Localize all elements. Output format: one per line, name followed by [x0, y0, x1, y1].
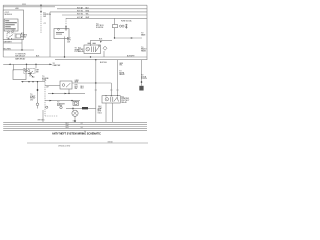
svg-text:HOT AT: HOT AT — [77, 6, 83, 9]
vertical V22 — [21, 39, 23, 51]
bus wire B3 — [50, 11, 147, 13]
svg-text:WHT: WHT — [86, 17, 90, 19]
svg-text:ANTI-THEFT SYSTEM WIRING SCHEM: ANTI-THEFT SYSTEM WIRING SCHEMATIC — [52, 132, 101, 135]
arrow on V66 — [65, 26, 67, 28]
PCM dashed left edge — [44, 80, 46, 116]
small box next to relay — [16, 34, 21, 38]
svg-text:HOT IN: HOT IN — [77, 10, 83, 12]
vertical V90 relay feed — [90, 40, 92, 46]
arrow on W64 left — [9, 64, 11, 66]
relay box (dashed) — [7, 33, 15, 39]
fuse symbols right top — [119, 25, 121, 27]
svg-text:A16: A16 — [16, 7, 19, 10]
connector circle on V37 — [36, 103, 39, 106]
key box interior — [62, 84, 65, 87]
connector circle on PCM edge — [46, 106, 48, 108]
battery glyph — [125, 24, 127, 29]
ground arrow under lamp — [74, 121, 76, 123]
vertical V57-64 link — [64, 37, 66, 47]
dark box end of V142 — [139, 86, 143, 91]
svg-text:HOT IN: HOT IN — [77, 14, 83, 16]
vertical V36 drop — [35, 64, 37, 68]
dot on W57 junction — [64, 56, 65, 57]
svg-text:HARN: HARN — [141, 49, 147, 52]
svg-text:CTRL: CTRL — [42, 80, 46, 82]
dot on W93 — [68, 93, 69, 94]
vertical V43 to bus — [42, 110, 44, 122]
wire W43 — [3, 42, 22, 44]
wire W108 — [66, 107, 96, 109]
pin dots under relay box — [8, 38, 9, 39]
svg-text:G4: G4 — [81, 127, 83, 129]
bottom bus 3 — [3, 126, 147, 128]
dot on W59 junction — [95, 59, 96, 60]
dots on W83 — [95, 82, 96, 83]
svg-text:FUSE 32 15A: FUSE 32 15A — [121, 19, 132, 22]
svg-text:RELAY: RELAY — [119, 73, 125, 76]
svg-text:GRN/WHT: GRN/WHT — [4, 41, 12, 43]
diamond L — [103, 46, 107, 50]
vertical V114 fuse down — [114, 28, 116, 38]
svg-text:CKT: CKT — [30, 99, 33, 101]
relay J contacts — [92, 47, 99, 53]
dots on W81 — [28, 81, 29, 82]
wire W81 — [21, 81, 45, 83]
wire W50 — [3, 49, 34, 51]
svg-text:RELAY: RELAY — [57, 104, 63, 107]
wire W93 — [48, 92, 85, 94]
pins on relay R top — [105, 95, 106, 96]
box E ignition key switch — [60, 81, 72, 89]
wire W38 — [114, 37, 142, 39]
wire W64 — [3, 63, 52, 65]
bus wire B5 — [66, 17, 147, 19]
dots on W50 — [21, 49, 22, 50]
vertical V66 drop to security unit — [65, 18, 67, 28]
labels above relay J — [88, 42, 91, 45]
svg-text:1H234: 1H234 — [108, 141, 113, 143]
svg-text:STARTER: STARTER — [53, 64, 62, 67]
svg-text:WHT/BLK: WHT/BLK — [38, 120, 46, 122]
component boxes — [3, 10, 120, 105]
top border wire — [3, 4, 147, 6]
arrow on W81 — [22, 81, 24, 83]
svg-text:54: 54 — [84, 131, 86, 133]
vertical V37 below connector — [37, 106, 39, 109]
svg-text:WHT: WHT — [75, 82, 79, 84]
dot on W108 — [72, 108, 73, 109]
svg-text:SW: SW — [36, 71, 39, 73]
vertical V96 — [95, 60, 97, 123]
circuit schematic page — [0, 0, 150, 150]
module box A inner lines — [5, 20, 17, 29]
wire W83 out of key box — [72, 82, 111, 84]
vertical V41 dashed — [40, 5, 42, 33]
vertical V106 below relay — [105, 103, 107, 122]
vertical V69 below key box — [68, 89, 70, 93]
lamp circle — [72, 110, 78, 116]
fuse box small — [113, 25, 118, 28]
svg-text:YEL: YEL — [119, 65, 122, 67]
relay R contact — [111, 97, 119, 102]
vertical V117 — [117, 60, 119, 96]
relay R coil — [105, 98, 108, 101]
svg-text:G2: G2 — [73, 121, 75, 123]
vertical V104 diamond drop — [103, 51, 105, 57]
svg-text:LOCKS: LOCKS — [141, 78, 148, 80]
svg-text:C111: C111 — [22, 4, 26, 6]
vertical V112 below relay — [112, 103, 114, 122]
vertical V114 fuse feed — [114, 18, 116, 24]
svg-text:BLK/WHT: BLK/WHT — [127, 55, 135, 57]
relay J coil circle — [86, 47, 90, 51]
left border wire — [2, 5, 4, 57]
svg-text:HOT AT: HOT AT — [77, 16, 83, 19]
svg-text:G1: G1 — [81, 123, 83, 125]
bottom bus 4 — [3, 128, 147, 130]
svg-text:WHT: WHT — [66, 125, 70, 127]
svg-text:RELAY: RELAY — [121, 101, 127, 104]
vertical V76 lamp to ground — [74, 116, 76, 120]
connector ticks — [110, 89, 112, 91]
dashed box C — [24, 68, 35, 73]
wire W85 into key box — [45, 85, 60, 87]
svg-text:SW CIRCUIT: SW CIRCUIT — [15, 55, 25, 57]
connector circle 2 — [60, 106, 62, 108]
junction top of V41 — [40, 5, 41, 6]
arrows on W93 — [52, 93, 54, 95]
wire W59 — [55, 59, 147, 61]
vertical V37 — [37, 82, 39, 103]
wire W40 — [91, 39, 113, 41]
dot on W100 — [71, 100, 72, 101]
arrow on W64 — [50, 64, 52, 66]
security unit inner text bars — [56, 31, 64, 34]
arrow on W38 — [130, 37, 132, 38]
PCM dashed bottom — [45, 115, 58, 117]
security unit box — [54, 29, 69, 39]
anti-theft module outer box — [3, 10, 23, 40]
wire W100 — [45, 100, 80, 102]
svg-text:C2: C2 — [44, 23, 46, 25]
dots on W64 — [26, 64, 27, 65]
vertical V50 box edge — [49, 12, 51, 57]
relay contact diagonal — [9, 35, 14, 38]
arrow on V41 — [40, 11, 42, 13]
gauge circle in box G — [74, 102, 77, 105]
svg-text:SOURCE: SOURCE — [96, 27, 104, 29]
vertical V73 junction drop — [72, 108, 74, 110]
svg-text:SW: SW — [75, 88, 78, 90]
svg-text:MAIN RELAY: MAIN RELAY — [15, 57, 26, 60]
dot on V142 — [141, 81, 143, 83]
vertical V142 — [141, 60, 143, 86]
svg-text:SW: SW — [43, 16, 46, 18]
footer rule — [27, 142, 148, 144]
vertical V13 — [13, 64, 15, 70]
relay box R — [102, 96, 120, 103]
bus wire B4 — [62, 14, 147, 16]
wire W57 — [3, 56, 147, 58]
anti-theft module box A — [4, 19, 18, 31]
symbols — [8, 5, 144, 123]
dot on W38 start — [114, 37, 115, 38]
dark box H on W108 — [82, 107, 88, 109]
svg-text:YEL: YEL — [86, 14, 89, 16]
security unit pins — [58, 28, 60, 30]
top rule 2 — [3, 6, 55, 8]
svg-text:BLU/RED: BLU/RED — [4, 48, 12, 50]
box B control unit — [13, 70, 26, 80]
vertical V26 drop — [26, 64, 28, 69]
circles in dashed box C — [25, 70, 27, 72]
dot on V37 — [37, 89, 39, 91]
right border wire — [146, 5, 148, 60]
transistor cluster — [28, 71, 35, 77]
arrow on W100 — [50, 100, 52, 102]
relay box J — [84, 45, 101, 54]
bus wire B2 — [57, 8, 147, 10]
arrow on W40 — [100, 41, 102, 42]
svg-text:BLK/YEL: BLK/YEL — [100, 62, 107, 64]
bottom bus 2 — [3, 123, 147, 125]
svg-text:MODULE: MODULE — [5, 14, 13, 16]
vertical V64 link2 — [64, 46, 66, 57]
vertical V111 into relay — [110, 83, 112, 96]
bottom border — [3, 130, 147, 132]
svg-text:G101: G101 — [98, 112, 102, 114]
svg-text:1994 ACCORD: 1994 ACCORD — [58, 144, 71, 147]
svg-text:RELAY: RELAY — [21, 35, 27, 38]
svg-text:A7: A7 — [47, 86, 49, 89]
gauge box G — [73, 101, 79, 105]
bottom bus 1 — [3, 121, 147, 123]
pins on relay row — [8, 31, 10, 33]
